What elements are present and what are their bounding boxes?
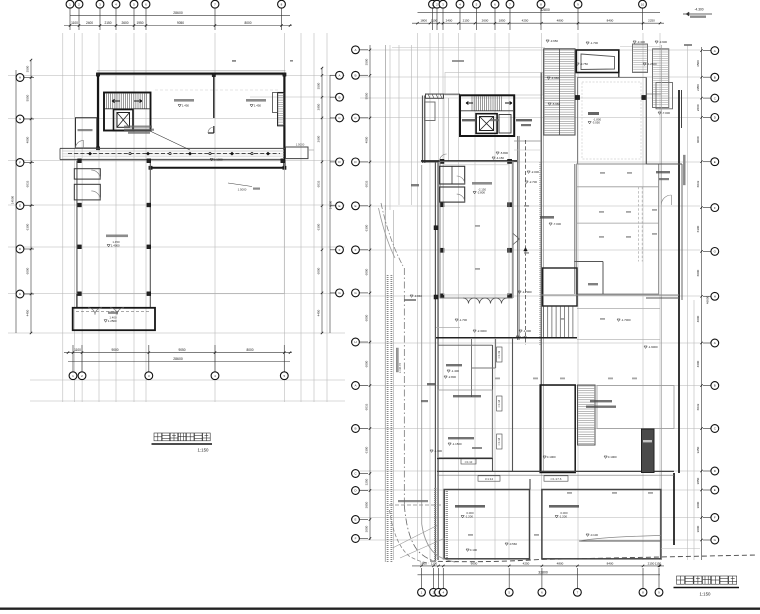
left plan circuit lamp symbols (129, 153, 131, 155)
svg-text:6033: 6033 (26, 180, 30, 187)
svg-text:E: E (354, 518, 356, 522)
right plan small west room (425, 102, 436, 121)
right plan west boundary wall upper (422, 96, 424, 164)
right plan bottom axis bubbles (421, 568, 423, 589)
left plan columns (78, 159, 82, 163)
right plan annotations lower (446, 364, 462, 366)
svg-text:6000: 6000 (365, 314, 369, 321)
svg-text:3500: 3500 (317, 82, 321, 89)
svg-text:1:150: 1:150 (700, 592, 712, 597)
svg-text:i=1:18: i=1:18 (497, 437, 501, 445)
svg-text:-1.400: -1.400 (451, 369, 460, 373)
left plan balcony door scallops (88, 308, 102, 315)
svg-text:9050: 9050 (177, 21, 184, 25)
svg-text:F: F (714, 516, 716, 520)
svg-text:-0.100: -0.100 (590, 533, 599, 537)
right plan right light verticals (660, 45, 662, 560)
right plan right axis bubbles (703, 50, 711, 52)
right plan corridor cross walls (514, 140, 541, 142)
svg-text:H: H (714, 295, 716, 299)
svg-text:5550: 5550 (26, 94, 30, 101)
svg-text:4250: 4250 (522, 19, 529, 23)
svg-text:0.1000: 0.1000 (608, 455, 617, 459)
left plan stair arrows (112, 99, 120, 102)
svg-text:46800: 46800 (706, 295, 710, 304)
right plan bottom-right room (542, 490, 661, 559)
svg-text:-1.300: -1.300 (434, 449, 443, 453)
right plan top wall line (426, 93, 461, 95)
svg-text:1100: 1100 (71, 21, 78, 25)
left plan bottom axis bubbles (72, 345, 74, 372)
left plan top dimension segments (64, 25, 292, 27)
svg-text:-1.200: -1.200 (465, 515, 474, 519)
svg-text:1:150: 1:150 (198, 448, 210, 453)
svg-text:0.1000: 0.1000 (547, 455, 556, 459)
svg-text:14500: 14500 (329, 200, 333, 209)
right plan bottom room labels (455, 505, 485, 508)
svg-text:6000: 6000 (365, 360, 369, 367)
right plan east-west walls right zone (646, 163, 682, 165)
right plan bottom dimension overall (418, 574, 661, 576)
left plan upper block parapet line (97, 70, 286, 72)
svg-text:9000: 9000 (111, 348, 118, 352)
right plan room label A1-17 (472, 182, 492, 185)
right plan middle room walls x540-575 (540, 385, 575, 473)
svg-text:F: F (339, 248, 341, 252)
right plan core elevator (476, 114, 497, 134)
right plan road retaining wall speckled band (387, 275, 389, 562)
svg-text:4000: 4000 (26, 136, 30, 143)
right plan top axis bubbles (432, 8, 434, 30)
svg-text:2150: 2150 (463, 19, 470, 23)
left plan partition door arc (208, 127, 214, 133)
right plan wall segment east of top room (618, 50, 620, 78)
svg-text:E: E (19, 204, 21, 208)
svg-text:32800: 32800 (540, 8, 550, 12)
right plan lower-left room outline (438, 390, 492, 458)
left plan top axis bubbles (69, 8, 71, 30)
svg-text:4600: 4600 (696, 360, 700, 367)
right plan bottom dimension segments (412, 565, 664, 567)
right plan small room door arcs (457, 176, 465, 184)
svg-text:6300: 6300 (26, 223, 30, 230)
right plan core side notes (462, 119, 475, 121)
svg-text:i=1:18: i=1:18 (497, 399, 501, 407)
right plan left vertical dimension (369, 45, 371, 540)
right plan mid stair room box (543, 268, 578, 306)
right plan extra light verticals (687, 45, 689, 560)
right plan wind shaft labels (411, 184, 419, 186)
right plan circuit arrow on dashed line (524, 248, 528, 252)
right plan corridor dashed line (525, 140, 527, 345)
svg-text:6300: 6300 (365, 224, 369, 231)
svg-text:2950: 2950 (317, 103, 321, 110)
svg-text:B: B (338, 95, 340, 99)
right plan annotations mid (518, 291, 521, 293)
svg-text:-3.900: -3.900 (659, 40, 668, 44)
svg-text:-1.2500: -1.2500 (647, 62, 657, 66)
svg-text:3000: 3000 (696, 501, 700, 508)
right plan bottom room speckled wall (434, 488, 436, 562)
left plan upper block outer walls (97, 72, 286, 74)
right plan bedroom columns (575, 95, 579, 99)
svg-text:E: E (354, 204, 356, 208)
right plan corridor wall speckle (539, 162, 541, 345)
right plan horizontal wall y471-475 (437, 470, 674, 472)
right plan stair core treads (471, 97, 473, 111)
svg-text:2600: 2600 (482, 19, 489, 23)
svg-text:1.2500: 1.2500 (108, 319, 117, 323)
left plan interior partition wall (213, 75, 215, 119)
svg-text:14500: 14500 (11, 195, 15, 204)
svg-text:4250: 4250 (523, 561, 530, 565)
svg-text:6033: 6033 (696, 180, 700, 187)
right plan left axis bubbles (359, 49, 368, 51)
left plan grid verticals (62, 33, 64, 402)
svg-text:6033: 6033 (365, 180, 369, 187)
svg-text:-5.960: -5.960 (552, 102, 561, 106)
svg-text:B: B (354, 74, 356, 78)
left plan left overall dimension (15, 70, 17, 333)
svg-text:i=1:19: i=1:19 (497, 350, 501, 358)
svg-text:4450: 4450 (26, 309, 30, 316)
right plan bottom-left room (444, 490, 529, 559)
svg-text:-4.300: -4.300 (694, 8, 703, 12)
left plan terrace light outline (77, 161, 284, 294)
left plan room label A1-18 (246, 99, 266, 102)
svg-text:8400: 8400 (607, 561, 614, 565)
svg-text:2600: 2600 (317, 135, 321, 142)
svg-text:6033: 6033 (365, 403, 369, 410)
svg-text:1850: 1850 (499, 19, 506, 23)
svg-text:A: A (354, 384, 356, 388)
right plan mid band light lines (577, 308, 660, 310)
right plan middle horizontal wall (436, 337, 577, 339)
right plan mid band tick row (495, 378, 500, 380)
left plan balcony at bottom (73, 308, 155, 330)
right plan small stair A (633, 44, 648, 73)
right plan inner hall outline (577, 164, 659, 294)
right plan wall below core (421, 160, 517, 162)
left plan top dimension overall (70, 15, 290, 17)
svg-text:1.4000: 1.4000 (111, 244, 120, 248)
left plan title (154, 433, 162, 441)
right plan big stair top (544, 49, 575, 135)
right plan ramp upper walls (471, 339, 473, 397)
svg-text:B: B (714, 384, 716, 388)
left plan corridor dashed lighting circuit (68, 153, 280, 155)
right plan stair core arrows (466, 102, 473, 105)
right plan ramp labels rotated (497, 396, 502, 411)
right plan bedroom label (588, 112, 599, 115)
left plan room label A1-20 (106, 235, 128, 238)
right plan site left light lines (385, 45, 387, 210)
right plan bottom dashed boundary (430, 555, 756, 562)
svg-text:6000: 6000 (365, 268, 369, 275)
left plan right axis bubbles (330, 74, 336, 76)
svg-text:10: 10 (641, 2, 645, 6)
left plan stair core ST-1 (104, 93, 151, 131)
right plan bedroom room (578, 78, 647, 165)
left plan grid horizontals (8, 75, 345, 77)
right plan corridor door arc east (661, 195, 671, 205)
right plan room block columns (440, 159, 444, 163)
svg-text:2400: 2400 (446, 19, 453, 23)
left plan corridor floor hatch (62, 149, 284, 151)
svg-text:-4.150: -4.150 (496, 156, 505, 160)
svg-text:6300: 6300 (365, 446, 369, 453)
left plan left annex door (76, 140, 84, 148)
svg-text:F: F (355, 248, 357, 252)
right plan right vertical dimension (701, 47, 703, 560)
sheet bottom border (0, 608, 760, 610)
svg-text:3000: 3000 (365, 525, 369, 532)
right plan ramp slope labels row (478, 476, 500, 481)
svg-text:8400: 8400 (607, 19, 614, 23)
svg-text:A: A (714, 341, 716, 345)
left plan top small marks (232, 60, 236, 62)
left plan terrace annotation 1.5000 (228, 183, 252, 187)
right plan upper-right lower room outline (597, 386, 674, 429)
left plan corridor west end (59, 148, 61, 159)
right plan inner hall dashed shaft (637, 187, 639, 262)
svg-text:-7.000: -7.000 (662, 111, 671, 115)
right plan ladder stair (578, 385, 596, 445)
left plan corridor upper edge (60, 147, 286, 149)
left plan balcony dashed line (76, 311, 151, 313)
svg-text:-1.700: -1.700 (459, 318, 468, 322)
left plan lower wing left wall (76, 161, 78, 308)
right plan room bottom scallops (463, 298, 474, 304)
right plan top dimension overall (418, 11, 661, 13)
svg-text:9000: 9000 (471, 561, 478, 565)
right plan road centerline dash-dot (403, 268, 405, 505)
svg-text:1.1000: 1.1000 (214, 158, 223, 162)
right plan top-right elevation note (683, 13, 712, 15)
right plan west boundary jog connector (423, 161, 439, 163)
left plan partial grid row (250, 96, 345, 98)
svg-text:A: A (714, 49, 716, 53)
svg-text:-2.800: -2.800 (477, 191, 486, 195)
svg-text:A: A (354, 48, 356, 52)
left plan circuit leader from stair (150, 131, 190, 150)
svg-text:-1.9000: -1.9000 (648, 345, 658, 349)
svg-text:3850: 3850 (365, 501, 369, 508)
right plan ladder landing (578, 444, 596, 446)
right plan interior small rooms (440, 166, 465, 184)
right plan misc small tick marks (599, 211, 604, 213)
svg-text:-4.960: -4.960 (551, 76, 560, 80)
left plan left vertical dimension (30, 60, 32, 333)
svg-text:E: E (714, 160, 716, 164)
svg-text:1100: 1100 (74, 348, 81, 352)
right plan band connector wall (529, 479, 531, 490)
svg-text:28600: 28600 (173, 357, 183, 361)
left plan small room door arcs (91, 170, 100, 179)
svg-text:8000: 8000 (244, 21, 251, 25)
svg-text:-2.000: -2.000 (531, 170, 540, 174)
right plan boundary columns (434, 226, 438, 230)
svg-text:2150: 2150 (104, 21, 111, 25)
left plan corridor lower edge (60, 159, 286, 161)
right plan hall west wall (574, 164, 576, 294)
svg-text:-1.700: -1.700 (590, 41, 599, 45)
svg-text:-2.700: -2.700 (529, 180, 538, 184)
svg-text:1800: 1800 (420, 561, 427, 565)
right plan room block inner offset (444, 165, 510, 295)
left plan right shaft inner box (273, 93, 278, 113)
svg-text:-3.400: -3.400 (637, 40, 646, 44)
svg-text:F: F (19, 161, 21, 165)
svg-text:-2.3000: -2.3000 (477, 329, 487, 333)
left plan room label A1-19 (174, 99, 194, 102)
left plan lower wing right wall (149, 161, 151, 308)
right plan refuse room walls (574, 261, 603, 263)
svg-text:4800: 4800 (557, 561, 564, 565)
right plan room block outline (440, 161, 512, 298)
left plan upper block bottom wall (150, 167, 286, 169)
svg-text:-2.800: -2.800 (448, 375, 457, 379)
svg-text:4800: 4800 (557, 19, 564, 23)
left plan right overall dimension (329, 75, 331, 333)
svg-text:i=1:12: i=1:12 (485, 477, 494, 481)
right plan small stair B (653, 49, 669, 108)
left plan elevator lobby annex (76, 118, 97, 148)
svg-text:1.5000: 1.5000 (238, 188, 247, 192)
svg-text:1.450: 1.450 (182, 104, 190, 108)
svg-text:1.150: 1.150 (520, 335, 528, 339)
svg-text:3250: 3250 (365, 478, 369, 485)
svg-text:1150: 1150 (655, 561, 662, 565)
right plan road entry curves (381, 203, 403, 266)
svg-text:-1.1500: -1.1500 (452, 442, 462, 446)
svg-text:1950: 1950 (136, 21, 143, 25)
left plan stair treads hatch (106, 94, 108, 109)
svg-text:3000: 3000 (696, 525, 700, 532)
left plan small rooms top of lower wing (74, 169, 100, 179)
right plan room east door swing (513, 234, 520, 245)
svg-text:-1.000: -1.000 (523, 329, 532, 333)
svg-text:H: H (354, 340, 356, 344)
svg-text:32800: 32800 (538, 571, 548, 575)
svg-text:1100: 1100 (431, 19, 438, 23)
right plan west boundary wall lower (434, 161, 436, 560)
svg-text:B: B (714, 75, 716, 79)
right plan road lane diagonals (393, 525, 439, 548)
svg-text:3500: 3500 (696, 60, 700, 67)
svg-text:4000: 4000 (696, 315, 700, 322)
right plan stair core (460, 95, 514, 136)
svg-text:-3.750: -3.750 (580, 62, 589, 66)
svg-text:6300: 6300 (317, 223, 321, 230)
svg-text:6000: 6000 (317, 267, 321, 274)
svg-text:1.5000: 1.5000 (296, 143, 305, 147)
svg-text:9050: 9050 (178, 348, 185, 352)
left plan left axis bubbles (24, 77, 34, 79)
svg-text:6000: 6000 (26, 267, 30, 274)
svg-text:0.100: 0.100 (470, 548, 478, 552)
svg-text:-3.650: -3.650 (550, 39, 559, 43)
svg-text:4000: 4000 (696, 136, 700, 143)
svg-text:6300: 6300 (696, 225, 700, 232)
right plan west glass line (448, 98, 450, 162)
right plan ramp bottom line (472, 367, 496, 369)
right plan bottom-right inner wall (579, 540, 661, 542)
svg-text:8000: 8000 (246, 348, 253, 352)
svg-text:2950: 2950 (696, 84, 700, 91)
left plan balcony labels (108, 312, 118, 314)
right plan roof light outline top-left (445, 73, 543, 96)
svg-text:1100: 1100 (431, 561, 438, 565)
svg-text:i=1:17.6: i=1:17.6 (551, 477, 562, 481)
left plan electrical riser note (124, 126, 152, 128)
svg-text:4000: 4000 (365, 136, 369, 143)
svg-text:A: A (338, 74, 340, 78)
right plan ramp corridor vertical (492, 345, 494, 471)
right plan road crossing dashed line (389, 504, 441, 506)
svg-text:3850: 3850 (696, 477, 700, 484)
left plan elevator shaft (114, 110, 134, 131)
right plan mid stair treads (543, 307, 545, 338)
right plan title (677, 576, 685, 584)
svg-text:3250: 3250 (696, 446, 700, 453)
svg-text:5550: 5550 (365, 92, 369, 99)
svg-text:2600: 2600 (121, 21, 128, 25)
right plan small stair C (656, 83, 673, 109)
svg-text:-5.800: -5.800 (500, 151, 509, 155)
left plan corridor annotations (210, 159, 213, 161)
right plan grid verticals (417, 33, 419, 560)
right plan road right edge (421, 165, 423, 524)
right plan inner hall partition rows (577, 186, 659, 188)
right plan rotated label smudge at east wall (683, 155, 685, 185)
svg-text:-3.050: -3.050 (592, 121, 601, 125)
right plan wind shaft label (427, 383, 435, 385)
svg-text:H: H (19, 76, 21, 80)
right plan entry dark box (642, 429, 655, 473)
svg-text:3500: 3500 (365, 58, 369, 65)
right plan right boundary wall lower (678, 300, 680, 473)
right plan grid horizontals (360, 49, 700, 51)
svg-text:i=1:10: i=1:10 (465, 460, 473, 464)
right plan corridor walls (517, 136, 519, 340)
svg-text:-1.200: -1.200 (559, 515, 568, 519)
left plan right service shaft (278, 93, 285, 126)
svg-text:1800: 1800 (420, 19, 427, 23)
svg-text:2250: 2250 (648, 19, 655, 23)
left plan bottom dimension segments (64, 352, 292, 354)
svg-text:-1.7000: -1.7000 (522, 290, 532, 294)
svg-text:2400: 2400 (86, 21, 93, 25)
svg-text:4450: 4450 (317, 309, 321, 316)
right plan top dimension segments (412, 22, 664, 24)
svg-text:B: B (354, 427, 356, 431)
svg-text:E: E (338, 204, 340, 208)
svg-text:-0.560: -0.560 (509, 542, 518, 546)
left plan bottom dimension overall (68, 361, 290, 363)
right plan core right small room (499, 115, 511, 134)
right plan top-left entry step hatch box (426, 94, 444, 98)
svg-text:F: F (714, 206, 716, 210)
svg-text:-1.7000: -1.7000 (621, 318, 631, 322)
left plan right vertical dimension (321, 68, 323, 333)
svg-text:3500: 3500 (26, 65, 30, 72)
right plan road left edges (384, 205, 386, 562)
svg-text:2600: 2600 (696, 104, 700, 111)
left plan ceiling dashed line (155, 89, 280, 91)
right plan right boundary wall upper (678, 90, 680, 300)
left plan wall junction squares (96, 73, 99, 76)
